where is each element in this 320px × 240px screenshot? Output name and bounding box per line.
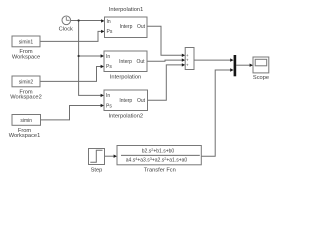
svg-text:Interpolation: Interpolation [110,75,141,81]
svg-text:Clock: Clock [59,27,73,33]
svg-text:simin: simin [20,118,32,124]
svg-text:Interpolation2: Interpolation2 [109,113,143,119]
svg-text:b2.s2+b1.s+b0: b2.s2+b1.s+b0 [142,148,175,154]
svg-text:Scope: Scope [253,75,269,81]
svg-text:Interpolation1: Interpolation1 [109,7,143,13]
svg-text:Interp: Interp [119,59,132,65]
svg-text:In: In [106,93,110,99]
svg-text:simin1: simin1 [19,39,34,45]
svg-text:Step: Step [91,167,103,173]
svg-text:In: In [107,19,111,25]
svg-text:Out: Out [137,98,146,104]
svg-text:Out: Out [137,24,146,30]
svg-text:Interp: Interp [119,98,132,104]
svg-text:Workspace: Workspace [12,54,40,60]
svg-text:+: + [186,63,189,68]
svg-text:a4.s4+a3.s3+a2.s2+a1.s+a0: a4.s4+a3.s3+a2.s2+a1.s+a0 [126,157,188,163]
svg-text:Workspace2: Workspace2 [10,95,42,101]
svg-text:simin2: simin2 [19,79,34,85]
svg-text:Out: Out [136,59,145,65]
svg-text:Ps: Ps [107,29,113,35]
svg-text:Transfer Fcn: Transfer Fcn [144,167,176,173]
svg-text:Ps: Ps [106,103,112,109]
svg-text:Interp: Interp [120,24,133,30]
svg-text:Workspace1: Workspace1 [9,133,41,139]
svg-text:Ps: Ps [106,64,112,70]
svg-text:In: In [106,54,110,60]
